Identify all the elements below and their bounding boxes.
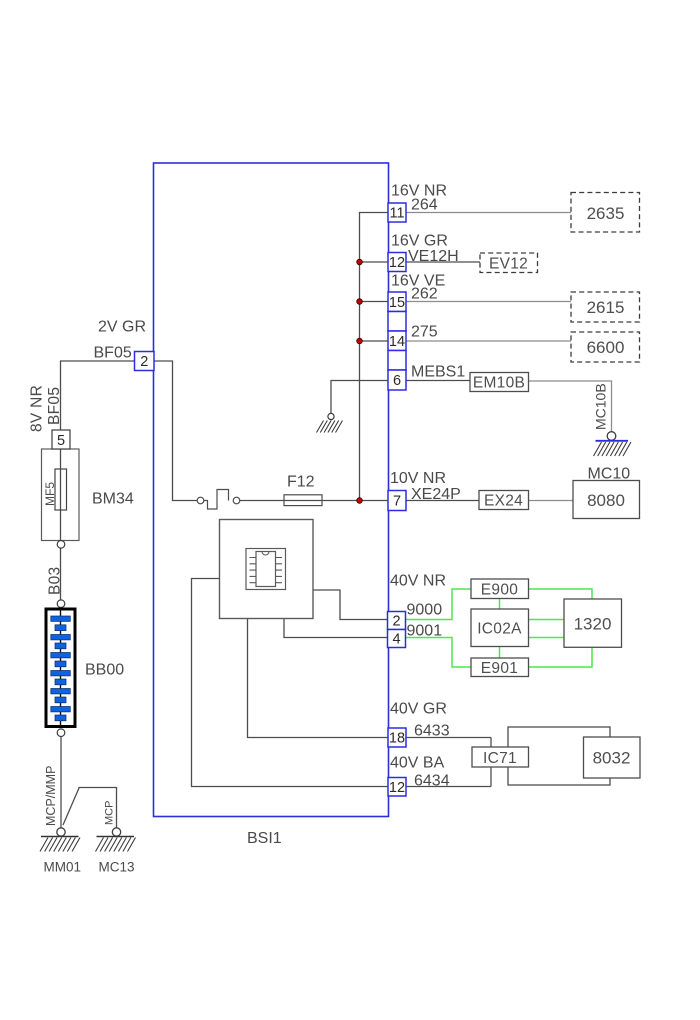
device 2635 (dashed) — [571, 193, 640, 233]
svg-text:6600: 6600 — [587, 338, 625, 357]
svg-text:IC02A: IC02A — [477, 621, 522, 638]
ECU box BSI1 — [154, 163, 389, 817]
wire chip to pin 12 (6434 net) — [192, 579, 389, 787]
wire to pin 15 — [360, 301, 389, 303]
connector IC71 — [472, 747, 529, 767]
wire chip to pin 18 (6433 net) — [248, 619, 389, 738]
svg-text:9000: 9000 — [407, 602, 443, 619]
svg-text:B03: B03 — [47, 567, 64, 595]
wire MEBS1 pin 6 to EM10B — [406, 380, 470, 382]
pin 5 fuse holder — [52, 430, 70, 449]
connector node above battery — [57, 600, 65, 608]
battery BB00 — [46, 609, 75, 727]
svg-text:2: 2 — [392, 614, 400, 630]
green wire IC02A to 1320 upper — [529, 619, 565, 621]
svg-text:MCP/MMP: MCP/MMP — [44, 766, 58, 826]
junction node dot 4 — [357, 498, 363, 504]
wire B03 to battery BB00 — [60, 548, 62, 600]
svg-text:1320: 1320 — [574, 615, 612, 634]
wire EX24 to 8080 — [529, 500, 574, 502]
wire EM10B to ground MC10B — [529, 381, 612, 432]
wire BF05 from pin 2 to fuse MF5 — [61, 361, 135, 430]
svg-text:2635: 2635 — [587, 204, 625, 223]
wire 264 pin 11 to 2635 — [406, 212, 571, 214]
ground MC13 — [96, 828, 136, 852]
pin 6 of 16V connector — [388, 370, 406, 390]
svg-text:XE24P: XE24P — [411, 486, 461, 503]
ground MC10B (blue rail) — [594, 432, 632, 456]
svg-text:BB00: BB00 — [85, 662, 124, 679]
fuse MF5 element — [55, 469, 67, 510]
pin 4 of 40V connector — [388, 630, 406, 648]
svg-text:MC13: MC13 — [99, 860, 135, 875]
svg-text:8080: 8080 — [587, 491, 625, 510]
svg-text:40V GR: 40V GR — [390, 701, 447, 718]
wire chip to pin 2 — [313, 590, 388, 620]
svg-text:BF05: BF05 — [46, 387, 63, 425]
chip pins — [250, 558, 283, 583]
device EV12 (dashed) — [480, 253, 538, 273]
wire to pin 12 — [360, 261, 389, 263]
device 2615 (dashed) — [571, 292, 640, 322]
svg-text:18: 18 — [389, 731, 405, 747]
green wire E900 to IC02A — [499, 599, 501, 610]
pin 12 of 16V connector — [388, 253, 406, 272]
green wire E901 to 1320 — [529, 647, 593, 667]
wire battery to ground MM01 — [60, 737, 62, 829]
svg-text:40V NR: 40V NR — [390, 573, 446, 590]
chip U1 DIP body — [256, 552, 276, 587]
svg-text:14: 14 — [389, 334, 405, 350]
svg-text:264: 264 — [411, 197, 438, 214]
ignition switch contact — [197, 490, 240, 510]
svg-text:7: 7 — [393, 494, 401, 510]
wire 275 pin 14 to 6600 — [406, 340, 571, 342]
svg-text:6433: 6433 — [414, 723, 450, 740]
wire pin2 to ignition switch — [154, 361, 197, 501]
connector E901 — [471, 658, 529, 677]
svg-text:VE12H: VE12H — [408, 248, 459, 265]
device 6600 (dashed) — [571, 332, 640, 362]
svg-text:2: 2 — [140, 354, 148, 370]
svg-text:10V NR: 10V NR — [390, 470, 446, 487]
bus wire from pin 11 down to F12 node — [360, 213, 389, 501]
svg-text:9001: 9001 — [407, 623, 443, 640]
svg-text:EX24: EX24 — [484, 493, 523, 510]
svg-text:11: 11 — [389, 206, 404, 222]
wire 262 pin 15 to 2615 — [406, 301, 571, 303]
fuse holder BM34 outer box — [42, 449, 80, 541]
connector node below battery — [57, 729, 65, 737]
svg-text:12: 12 — [389, 780, 405, 796]
junction node dot 3 — [357, 338, 363, 344]
svg-text:275: 275 — [411, 324, 438, 341]
wire 6433 pin 18 to IC71 — [406, 737, 491, 739]
connector EX24 — [479, 491, 529, 510]
internal ground of BSI — [317, 413, 343, 432]
svg-text:6: 6 — [393, 373, 401, 389]
pin 14 of 16V connector — [388, 331, 406, 351]
device 8080 MC10 — [573, 481, 640, 519]
svg-text:5: 5 — [57, 433, 65, 449]
svg-text:16V GR: 16V GR — [391, 233, 448, 250]
svg-text:6434: 6434 — [414, 773, 450, 790]
wire junction at IC71 — [490, 738, 492, 787]
internal module box — [220, 520, 314, 619]
pin 2 left (2V GR) — [135, 352, 155, 371]
chip socket frame — [246, 549, 286, 590]
wire 6434 pin 12 to IC71 — [406, 786, 491, 788]
svg-text:MC10B: MC10B — [593, 383, 609, 430]
wire chip to pin 4 — [284, 619, 388, 638]
fuse F12 — [284, 495, 322, 506]
connector EM10B — [470, 373, 529, 392]
svg-text:MC10: MC10 — [588, 466, 631, 483]
wire pin 6 to internal ground — [331, 381, 388, 414]
pin 18 of 40V connector — [388, 728, 406, 747]
connector node below MF5 — [57, 541, 65, 549]
device 1320 — [564, 599, 622, 647]
svg-text:BSI1: BSI1 — [247, 830, 282, 847]
blank pin box — [388, 312, 406, 332]
wire switch to fuse F12 and pin 7 — [240, 500, 388, 502]
pin 7 of 10V connector — [388, 491, 406, 511]
svg-text:BM34: BM34 — [92, 491, 134, 508]
svg-text:E900: E900 — [481, 582, 518, 599]
junction node dot 1 — [357, 259, 363, 265]
svg-text:2V GR: 2V GR — [98, 319, 146, 336]
svg-text:BF05: BF05 — [94, 345, 132, 362]
wire branch to ground MC13 — [63, 788, 117, 829]
green wire E900 to 1320 — [529, 589, 593, 599]
green wire 9001 pin 4 to E901 — [406, 638, 472, 668]
ground MM01 — [40, 828, 80, 852]
svg-text:12: 12 — [389, 255, 405, 271]
svg-text:15: 15 — [389, 295, 405, 311]
svg-text:262: 262 — [411, 286, 438, 303]
wire through fuse holder to connector B03 — [60, 448, 62, 541]
svg-text:MCP: MCP — [104, 801, 116, 825]
connector E900 — [471, 579, 529, 599]
pin 11 of 16V connector — [388, 203, 406, 222]
svg-text:E901: E901 — [481, 660, 518, 677]
pin 15 of 16V connector — [388, 292, 406, 312]
svg-text:EM10B: EM10B — [473, 375, 525, 392]
pin 12 of 40V BA connector — [388, 778, 406, 797]
wire XE24P pin 7 to EX24 — [406, 500, 479, 502]
pin 2 of 40V connector — [388, 612, 406, 630]
component outline with IC71 / 8032 — [508, 727, 610, 785]
green wire IC02A to E901 — [499, 647, 501, 659]
connector IC02A — [471, 609, 529, 647]
svg-text:MM01: MM01 — [44, 860, 82, 875]
device 8032 — [584, 737, 641, 778]
svg-text:8032: 8032 — [593, 749, 631, 768]
svg-text:8V NR: 8V NR — [29, 385, 46, 432]
svg-text:EV12: EV12 — [489, 256, 528, 273]
svg-text:4: 4 — [392, 632, 400, 648]
junction node dot 2 — [357, 299, 363, 305]
svg-text:MF5: MF5 — [43, 482, 57, 506]
svg-text:IC71: IC71 — [483, 750, 517, 767]
wire to pin 14 — [360, 340, 389, 342]
wire VE12H pin 12 to EV12 — [406, 261, 480, 263]
svg-text:MEBS1: MEBS1 — [411, 364, 465, 381]
svg-text:40V BA: 40V BA — [390, 755, 445, 772]
blank pin box 2 — [388, 351, 406, 371]
green wire IC02A to 1320 lower — [529, 637, 565, 639]
svg-text:F12: F12 — [287, 474, 315, 491]
svg-text:2615: 2615 — [587, 298, 625, 317]
green wire 9000 pin 2 to E900 — [406, 589, 472, 620]
